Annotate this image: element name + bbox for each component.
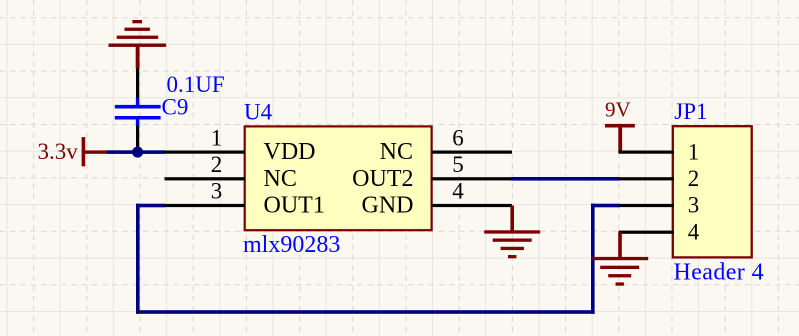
svg-text:NC: NC bbox=[380, 139, 413, 165]
svg-text:3: 3 bbox=[211, 179, 223, 204]
svg-text:5: 5 bbox=[452, 152, 464, 177]
svg-text:VDD: VDD bbox=[264, 139, 316, 165]
wire (U4 OUT2 to JP1 pin 2) bbox=[511, 177, 619, 181]
svg-text:C9: C9 bbox=[162, 95, 189, 120]
svg-text:JP1: JP1 bbox=[674, 99, 707, 124]
svg-text:6: 6 bbox=[452, 125, 464, 150]
svg-text:Header 4: Header 4 bbox=[674, 259, 764, 285]
svg-text:9V: 9V bbox=[605, 98, 631, 122]
svg-text:OUT2: OUT2 bbox=[352, 166, 413, 192]
JP1 pin 2 bbox=[619, 166, 700, 191]
IC U4 body bbox=[245, 126, 432, 230]
wire (earth to C9 top) bbox=[136, 69, 139, 99]
svg-text:1: 1 bbox=[688, 139, 700, 164]
wire (C9 bottom to junction) bbox=[136, 126, 139, 152]
svg-text:3: 3 bbox=[688, 193, 700, 218]
U4 pin 2 (NC) bbox=[165, 152, 246, 180]
wire (left vertical of loop) bbox=[136, 204, 140, 314]
svg-text:1: 1 bbox=[211, 125, 223, 150]
U4 pin 6 (NC) bbox=[432, 125, 513, 153]
JP1 pin 4 bbox=[619, 219, 700, 244]
power port 3.3v bbox=[82, 137, 108, 166]
capacitor C9 bbox=[115, 98, 161, 127]
svg-text:4: 4 bbox=[452, 179, 464, 204]
power port 9V bbox=[605, 124, 635, 153]
svg-text:NC: NC bbox=[264, 166, 297, 192]
svg-text:2: 2 bbox=[211, 152, 223, 177]
junction (C9 / 3.3v / VDD) bbox=[132, 147, 143, 158]
U4 pin 1 (VDD) bbox=[165, 125, 246, 153]
U4 pin 5 (OUT2) bbox=[432, 152, 513, 180]
U4 pin 4 (GND) bbox=[432, 179, 513, 207]
ground GND2 (under JP1 pin 4) bbox=[591, 232, 648, 285]
wire (to JP1 pin 3) bbox=[591, 204, 620, 208]
U4 pin 3 (OUT1) bbox=[165, 179, 246, 207]
power ground (earth bars, top) bbox=[109, 20, 167, 69]
svg-text:mlx90283: mlx90283 bbox=[243, 232, 340, 258]
JP1 pin 1 bbox=[619, 139, 700, 164]
wire (right vertical of loop) bbox=[591, 204, 595, 314]
svg-text:0.1UF: 0.1UF bbox=[167, 72, 225, 97]
svg-text:2: 2 bbox=[688, 166, 700, 191]
ground GND1 (under U4 pin 4) bbox=[484, 206, 540, 259]
wire (U4 OUT1 left segment) bbox=[136, 204, 165, 208]
svg-text:OUT1: OUT1 bbox=[264, 193, 325, 219]
svg-text:3.3v: 3.3v bbox=[38, 139, 79, 164]
svg-text:4: 4 bbox=[688, 219, 700, 244]
wire (bottom horizontal of loop) bbox=[136, 310, 595, 314]
svg-text:U4: U4 bbox=[244, 100, 273, 125]
wire (3.3v to U4 pin 1) bbox=[107, 150, 165, 154]
JP1 pin 3 bbox=[619, 193, 700, 218]
connector JP1 body bbox=[673, 126, 752, 257]
svg-text:GND: GND bbox=[362, 193, 414, 219]
